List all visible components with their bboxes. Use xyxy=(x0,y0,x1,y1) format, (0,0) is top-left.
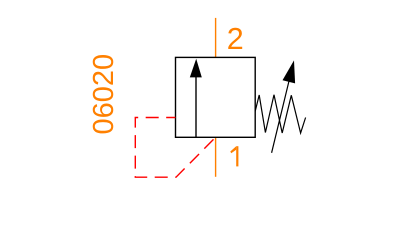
part number label 06020 xyxy=(88,54,120,135)
port 1 line xyxy=(215,137,217,177)
port 2 line xyxy=(215,18,217,58)
flow path arrow shaft xyxy=(195,75,197,137)
svg-text:2: 2 xyxy=(227,22,244,56)
svg-text:06020: 06020 xyxy=(88,54,120,135)
pilot control dashed line xyxy=(135,118,215,178)
spring adjustment arrowhead xyxy=(283,60,296,83)
spring xyxy=(255,95,305,133)
flow path arrowhead xyxy=(190,59,202,78)
port 1 label xyxy=(230,146,238,166)
valve body U1 xyxy=(176,57,256,137)
spring adjustment arrow shaft xyxy=(272,81,289,153)
